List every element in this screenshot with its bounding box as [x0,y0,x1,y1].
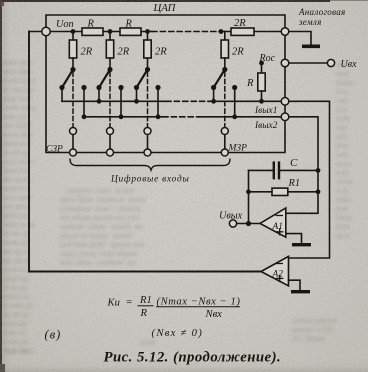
svg-text:2R: 2R [81,47,93,58]
svg-text:(в): (в) [45,328,62,342]
svg-text:A1: A1 [272,222,283,232]
svg-text:Iвых2: Iвых2 [254,121,278,131]
svg-text:МЗР: МЗР [228,144,248,154]
svg-text:C: C [290,157,298,169]
svg-text:Аналоговая: Аналоговая [298,7,346,17]
svg-text:Рис. 5.12. (продолжение).: Рис. 5.12. (продолжение). [104,350,282,366]
svg-text:R1: R1 [139,295,152,306]
svg-text:Uвх: Uвх [341,59,358,70]
svg-text:Ku: Ku [107,298,120,309]
svg-text:Uвых: Uвых [219,211,243,222]
svg-text:земля: земля [298,17,322,27]
svg-text:2R: 2R [232,47,244,58]
svg-text:R: R [140,308,148,319]
svg-text:Nвх: Nвх [205,309,223,320]
svg-text:R: R [246,78,254,89]
svg-text:R: R [87,19,95,30]
svg-text:Iвых1: Iвых1 [254,106,277,116]
svg-text:=: = [126,297,133,308]
svg-text:СЗР: СЗР [46,145,63,155]
svg-text:Цифровые входы: Цифровые входы [110,174,190,185]
svg-text:Uоп: Uоп [56,19,74,30]
svg-text:2R: 2R [234,18,246,29]
svg-text:R1: R1 [288,178,301,189]
svg-text:2R: 2R [118,47,130,58]
svg-text:(Nвх ≠ 0): (Nвх ≠ 0) [152,328,204,339]
svg-text:2R: 2R [155,47,167,58]
svg-text:(Nmax −Nвх − 1): (Nmax −Nвх − 1) [157,297,241,308]
svg-text:Rос: Rос [259,53,276,64]
svg-text:R: R [125,19,133,30]
svg-text:A2: A2 [272,270,284,280]
svg-text:ЦАП: ЦАП [153,2,177,14]
